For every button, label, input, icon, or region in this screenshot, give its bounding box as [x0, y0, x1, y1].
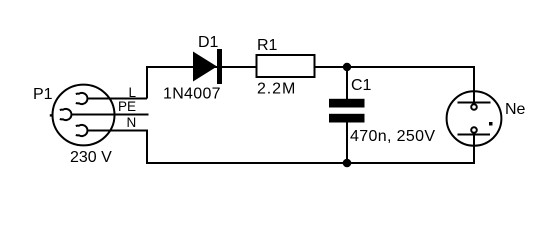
svg-text:N: N — [127, 115, 137, 130]
svg-text:L: L — [129, 85, 137, 100]
plug P1 circle — [53, 85, 115, 146]
pin L wire inside plug — [87, 98, 121, 100]
wire: top net L from plug corner through D1,R1 to right corner — [147, 67, 474, 99]
pin PE wire inside plug — [71, 114, 121, 116]
wire: Ne top lead inside circle — [473, 88, 475, 103]
svg-text:2.2M: 2.2M — [257, 81, 296, 98]
diode D1 triangle — [193, 52, 217, 82]
plug P1 left notch — [50, 114, 53, 116]
junction dot top at C1 — [343, 63, 351, 71]
wire: PE pin stub — [71, 114, 149, 116]
svg-text:1N4007: 1N4007 — [163, 86, 221, 103]
wire: C1 bottom lead — [346, 122, 348, 163]
svg-text:Ne: Ne — [505, 101, 526, 118]
svg-text:470n, 250V: 470n, 250V — [350, 128, 435, 145]
pin N contact arc — [76, 125, 88, 136]
svg-text:C1: C1 — [351, 77, 372, 94]
pin PE contact arc — [60, 109, 72, 120]
Ne bottom terminal circle — [471, 127, 477, 133]
svg-text:P1: P1 — [33, 86, 53, 103]
pin L contact arc — [76, 93, 88, 104]
Ne top terminal circle — [471, 104, 477, 110]
wire: Ne bottom lead inside circle — [473, 135, 475, 149]
capacitor C1 top plate — [329, 99, 365, 108]
svg-text:R1: R1 — [257, 37, 278, 54]
wire: N pin line, down and along bottom net to Ne — [87, 131, 475, 164]
Ne gas dot — [489, 122, 493, 126]
junction dot bottom at C1 — [343, 159, 352, 168]
wire: L pin line from plug to corner — [87, 98, 148, 100]
Ne top electrode — [458, 102, 491, 104]
neon lamp Ne circle — [447, 91, 502, 145]
resistor R1 box — [257, 55, 315, 77]
Ne bottom electrode — [458, 134, 491, 136]
diode D1 cathode bar — [217, 49, 222, 84]
svg-text:D1: D1 — [198, 34, 219, 51]
wire: C1 top lead — [346, 67, 348, 99]
capacitor C1 bottom plate — [329, 114, 365, 123]
svg-text:PE: PE — [118, 99, 136, 114]
svg-text:230 V: 230 V — [70, 149, 112, 166]
pin N wire inside plug — [87, 130, 121, 132]
